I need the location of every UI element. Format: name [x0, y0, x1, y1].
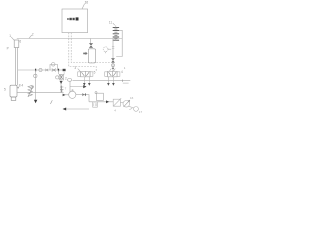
wire valve to bottom bus [86, 95, 89, 102]
svg-text:7: 7 [65, 86, 67, 90]
regulator branch wire [59, 70, 61, 93]
orifice ticks on drop wire [112, 46, 114, 48]
solenoid valve assembly SV1 [78, 71, 93, 77]
right drop wire [112, 39, 114, 72]
svg-text:10: 10 [85, 0, 89, 4]
heater coil HX1 [28, 85, 32, 96]
svg-text:16: 16 [130, 96, 134, 100]
junction node J2 [35, 69, 36, 72]
controller U1 box [62, 9, 88, 33]
valve circle V2 [39, 68, 42, 71]
exhaust port line [123, 82, 129, 84]
battery top stub and leader [113, 23, 116, 27]
svg-text:6: 6 [19, 40, 21, 44]
SV2 stubs [108, 77, 113, 83]
battery bottom stub [115, 39, 117, 41]
vent arrowhead [34, 100, 37, 103]
controller U1 label text [67, 17, 78, 20]
muffler M1 [93, 102, 98, 107]
arrow at cylinder left [83, 52, 87, 55]
exhaust wire left with arrow [66, 108, 89, 110]
bottom bus wire [89, 101, 113, 103]
drop from top bus [90, 39, 92, 44]
regulator marks [60, 75, 63, 79]
battery BT1 [113, 27, 119, 40]
bracket wire from bus [116, 30, 122, 56]
stub from G3 [108, 48, 111, 50]
gauge G1 on bypass [51, 63, 55, 67]
tank T1 base [11, 97, 16, 100]
tick below arrow blob [63, 72, 65, 75]
junction node J1 [58, 69, 59, 72]
filter F1 box [96, 93, 103, 100]
svg-text:3: 3 [74, 66, 76, 70]
regulator R1 box [59, 74, 63, 80]
leader near tank return [50, 100, 52, 104]
tank return wire [17, 92, 64, 94]
solenoid valve assembly SV2 [105, 71, 120, 77]
wire fan to motor [129, 106, 134, 109]
arrow in regulator branch [60, 81, 63, 84]
valve V6 bowtie [89, 43, 93, 48]
svg-text:4: 4 [21, 84, 23, 88]
dashed control wire L1 from controller [71, 33, 111, 63]
valve circle V5 [34, 74, 37, 77]
valve V4 on main wire [52, 69, 56, 72]
vent wire down-left [35, 70, 37, 100]
tank T1 [10, 85, 17, 97]
svg-text:2: 2 [32, 33, 34, 37]
inlet arrow [63, 94, 66, 97]
svg-text:2: 2 [65, 76, 67, 80]
svg-text:1: 1 [9, 34, 11, 38]
bottom arrow right [106, 100, 109, 103]
coil arrow [28, 86, 33, 97]
drain arrows SV1 [83, 83, 91, 86]
tick under gauge G3 [105, 52, 107, 54]
svg-text:1: 1 [124, 66, 126, 70]
fan FN1 [123, 101, 130, 108]
valve stub V7 at tank top right [17, 87, 19, 89]
SV2 leaders [110, 69, 116, 71]
relief triangle [61, 91, 63, 93]
arrow right on bypass [83, 85, 86, 88]
pipe double wire left [16, 48, 18, 86]
exhaust bus wire [73, 80, 131, 82]
wire CV1 to fan [120, 102, 123, 104]
bypass loop wire [50, 65, 58, 71]
motor M2 [134, 107, 139, 112]
node on drop wire [112, 68, 114, 70]
CV1 diagonal [114, 98, 122, 106]
check valve CV1 box [113, 99, 120, 106]
wire pump to valve [76, 94, 83, 96]
end tick right [121, 80, 123, 82]
gauge G2 [56, 76, 59, 79]
circle under pilot valve [112, 64, 115, 67]
oval at bus left [68, 79, 72, 82]
dashed gauge circle G3 [103, 47, 108, 52]
exhaust arrowhead [62, 108, 66, 111]
main supply wire [18, 69, 64, 71]
dashed control wire L2 from controller [69, 33, 96, 71]
svg-text:17: 17 [139, 110, 143, 114]
F1 corner circle [95, 92, 97, 94]
cylinder CY1 [88, 49, 95, 63]
pilot valve PV1 bowtie [111, 58, 115, 62]
leader for S1 [11, 37, 14, 40]
top bus wire [17, 38, 122, 40]
muffler marks [94, 103, 97, 106]
leader to label 10 [82, 4, 85, 9]
pump top ticks [71, 89, 74, 91]
SV1 leader [78, 69, 80, 71]
svg-text:P: P [7, 46, 9, 50]
arrow end of main wire [63, 69, 66, 71]
fan arrow [124, 100, 130, 107]
svg-text:5: 5 [94, 71, 96, 75]
valve V3 [45, 69, 48, 71]
drain arrows SV2 [107, 83, 115, 86]
svg-text:4: 4 [121, 70, 123, 74]
leader on top bus [29, 35, 32, 38]
pump P1 [69, 91, 76, 98]
svg-text:5: 5 [4, 88, 6, 92]
bypass wire with arrow [70, 82, 86, 93]
svg-text:11: 11 [109, 20, 113, 24]
svg-text:4: 4 [114, 108, 116, 112]
pump inlet stub [64, 94, 69, 96]
sensor box S1 top-left [14, 40, 19, 48]
SV1 stubs [84, 77, 89, 83]
valve V8 bowtie [82, 93, 86, 96]
relief valve RV1 [60, 86, 63, 93]
